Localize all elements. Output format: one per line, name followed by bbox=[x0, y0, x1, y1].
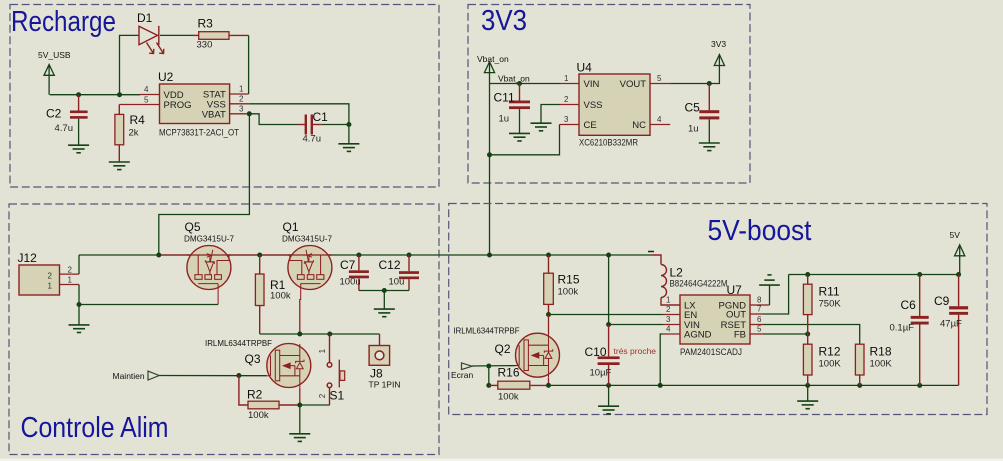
resistor R2 bbox=[239, 376, 300, 409]
svg-text:VSS: VSS bbox=[584, 100, 603, 111]
svg-text:Ecran: Ecran bbox=[451, 370, 473, 380]
svg-text:R2: R2 bbox=[247, 388, 263, 402]
wire OUT to 5V rail bbox=[763, 275, 789, 315]
node CE junction bbox=[487, 152, 492, 157]
svg-text:PROG: PROG bbox=[164, 100, 192, 111]
ground right of C1 bbox=[338, 144, 359, 152]
wire 5V rail bbox=[789, 274, 959, 276]
svg-text:R3: R3 bbox=[198, 17, 214, 31]
ground below J12 bbox=[69, 325, 90, 333]
node 5V C6 bbox=[917, 272, 922, 277]
svg-text:3: 3 bbox=[239, 104, 244, 113]
svg-text:1: 1 bbox=[48, 282, 53, 291]
node C6 bottom bbox=[917, 383, 922, 388]
capacitor C11 bbox=[509, 81, 530, 133]
svg-text:10µF: 10µF bbox=[590, 368, 612, 379]
ic U7 bbox=[663, 295, 763, 344]
svg-text:J8: J8 bbox=[370, 367, 383, 381]
svg-text:C5: C5 bbox=[685, 101, 701, 115]
port Maintien bbox=[148, 371, 159, 380]
wire C1 to VSS-ground bbox=[322, 124, 349, 126]
ground below C11 bbox=[509, 133, 530, 141]
node J12 pin1 bbox=[77, 302, 82, 307]
wire rail end tick bbox=[648, 251, 654, 253]
power 3V3 arrow bbox=[714, 55, 724, 84]
svg-text:XC6210B332MR: XC6210B332MR bbox=[579, 138, 638, 148]
wire Q1gate/Q3drain node bbox=[260, 333, 380, 335]
svg-text:6: 6 bbox=[757, 315, 762, 324]
node Q3 drain bbox=[297, 332, 302, 337]
svg-text:4: 4 bbox=[657, 115, 662, 124]
ic U4 bbox=[560, 74, 671, 135]
svg-text:C12: C12 bbox=[379, 258, 401, 272]
wire ground stem C7/C12 bbox=[383, 291, 385, 309]
svg-text:NC: NC bbox=[632, 120, 646, 131]
svg-text:Controle Alim: Controle Alim bbox=[21, 412, 169, 444]
svg-text:R18: R18 bbox=[870, 345, 892, 359]
svg-text:C7: C7 bbox=[340, 258, 356, 272]
node rail C12 bbox=[407, 253, 412, 258]
node S1 pin1 bbox=[327, 332, 332, 337]
node 5V R11 bbox=[805, 272, 810, 277]
ground below C10 bbox=[598, 406, 619, 414]
svg-text:47µF: 47µF bbox=[940, 319, 962, 330]
svg-text:5V: 5V bbox=[950, 230, 961, 240]
sheet border Controle Alim bbox=[9, 204, 439, 455]
svg-text:1: 1 bbox=[564, 74, 569, 83]
wire RSET to R18 bbox=[763, 325, 860, 345]
svg-text:3V3: 3V3 bbox=[711, 39, 726, 49]
wire main Vbat rail bbox=[79, 254, 652, 256]
svg-text:J12: J12 bbox=[18, 251, 38, 265]
wire Maintien to Q3 gate bbox=[159, 375, 267, 377]
svg-text:TP 1PIN: TP 1PIN bbox=[369, 380, 401, 390]
port Ecran bbox=[462, 363, 473, 370]
svg-text:D1: D1 bbox=[137, 11, 153, 25]
node 5V C9 bbox=[956, 272, 961, 277]
resistor R4 bbox=[115, 105, 124, 163]
svg-text:1: 1 bbox=[68, 276, 73, 285]
node R12 bottom bbox=[805, 383, 810, 388]
resistor R1 bbox=[255, 255, 264, 334]
wire boost ground rail bbox=[549, 384, 959, 386]
node C1/VSS junction bbox=[346, 122, 351, 127]
svg-text:IRLML6344TRPBF: IRLML6344TRPBF bbox=[205, 338, 272, 348]
node C5 junction bbox=[707, 81, 712, 86]
svg-text:4: 4 bbox=[144, 85, 149, 94]
wire C7/C12 bottoms bbox=[359, 290, 409, 292]
svg-text:DMG3415U-7: DMG3415U-7 bbox=[184, 234, 234, 244]
svg-text:DMG3415U-7: DMG3415U-7 bbox=[282, 234, 332, 244]
node rail R15 bbox=[546, 253, 551, 258]
capacitor C12 bbox=[399, 255, 419, 291]
svg-text:1u: 1u bbox=[688, 124, 699, 135]
wire CE to Vbat_on bbox=[490, 125, 560, 155]
ic U2 bbox=[119, 84, 249, 124]
wire Q2 source bbox=[548, 377, 550, 385]
svg-text:1u: 1u bbox=[499, 114, 510, 125]
inductor L2 bbox=[652, 255, 680, 305]
svg-text:C6: C6 bbox=[901, 298, 917, 312]
node R16 branch bbox=[486, 364, 491, 369]
wire R16 branch down bbox=[488, 366, 490, 385]
svg-text:Recharge: Recharge bbox=[11, 6, 116, 38]
resistor R12 bbox=[803, 334, 812, 385]
svg-text:3: 3 bbox=[564, 115, 569, 124]
svg-text:Q2: Q2 bbox=[495, 342, 511, 356]
svg-text:100k: 100k bbox=[498, 392, 519, 403]
svg-text:U2: U2 bbox=[158, 70, 174, 84]
ground below VSS bbox=[531, 123, 552, 131]
wire VOUT to 3V3 bbox=[670, 83, 720, 85]
svg-text:0.1µF: 0.1µF bbox=[890, 323, 915, 334]
svg-text:Vbat_on: Vbat_on bbox=[498, 74, 530, 84]
switch S1 bbox=[327, 334, 344, 405]
wire EN net bbox=[549, 314, 664, 316]
svg-text:5V-boost: 5V-boost bbox=[708, 215, 812, 247]
svg-text:Q1: Q1 bbox=[283, 220, 299, 234]
svg-text:C10: C10 bbox=[585, 345, 607, 359]
node VBAT bbox=[247, 111, 252, 116]
sheet border 5V-boost bbox=[449, 204, 987, 415]
svg-text:100K: 100K bbox=[870, 359, 893, 370]
resistor R3 bbox=[193, 32, 249, 40]
wire Q3 source bbox=[299, 388, 301, 406]
svg-text:VIN: VIN bbox=[584, 79, 600, 90]
svg-text:R15: R15 bbox=[558, 273, 580, 287]
wire D1 anode bbox=[120, 35, 140, 94]
svg-text:100K: 100K bbox=[819, 359, 842, 370]
svg-text:MCP73831T-2ACI_OT: MCP73831T-2ACI_OT bbox=[159, 128, 239, 138]
svg-text:AGND: AGND bbox=[684, 330, 712, 341]
wire AGND elbow bbox=[660, 334, 663, 385]
svg-text:4.7u: 4.7u bbox=[303, 134, 322, 145]
svg-text:5: 5 bbox=[657, 74, 662, 83]
svg-text:S1: S1 bbox=[330, 389, 345, 403]
capacitor C2 bbox=[70, 95, 88, 146]
wire VSS to ground bbox=[541, 105, 560, 124]
svg-text:1: 1 bbox=[239, 85, 244, 94]
svg-text:10u: 10u bbox=[389, 277, 405, 288]
svg-text:R11: R11 bbox=[819, 285, 840, 299]
capacitor C5 bbox=[699, 84, 719, 144]
ground below C2 bbox=[68, 145, 89, 153]
wire R3 to STAT bbox=[248, 35, 250, 94]
wire J12 pin1 to gate/ground bbox=[78, 285, 80, 325]
node Q3 source bbox=[297, 403, 302, 408]
svg-text:C1: C1 bbox=[313, 110, 329, 124]
svg-text:2: 2 bbox=[48, 271, 53, 280]
transistor Q1 bbox=[288, 246, 332, 301]
capacitor C10 bbox=[598, 255, 620, 406]
diode D1 bbox=[139, 26, 164, 54]
wire Q2 drain bbox=[548, 315, 550, 335]
transistor Q5 bbox=[187, 246, 231, 305]
sheet border Recharge bbox=[10, 5, 439, 188]
svg-text:100k: 100k bbox=[248, 410, 269, 421]
wire VSS to ground bbox=[249, 104, 349, 144]
testpoint J8 bbox=[369, 334, 390, 365]
node R2 branch bbox=[236, 373, 241, 378]
node C2-top junction bbox=[76, 92, 81, 97]
svg-text:5: 5 bbox=[757, 325, 762, 334]
svg-text:2: 2 bbox=[318, 393, 327, 398]
svg-text:2: 2 bbox=[68, 265, 73, 274]
connector J12 bbox=[19, 265, 79, 295]
resistor R11 bbox=[803, 275, 812, 335]
power 5V_USB bbox=[44, 65, 54, 95]
svg-text:C11: C11 bbox=[494, 91, 515, 105]
svg-text:trés proche: trés proche bbox=[614, 346, 657, 356]
resistor R18 bbox=[855, 344, 864, 385]
wire VIN net bbox=[609, 324, 663, 326]
svg-text:R4: R4 bbox=[130, 113, 146, 127]
svg-text:5: 5 bbox=[144, 96, 149, 105]
ground above PGND inverted bbox=[759, 275, 780, 285]
transistor Q3 bbox=[267, 344, 311, 388]
svg-text:C9: C9 bbox=[934, 294, 950, 308]
node rail Vbat_on bbox=[487, 253, 492, 258]
svg-text:4.7u: 4.7u bbox=[55, 123, 74, 134]
node D1 junction bbox=[117, 92, 122, 97]
svg-text:2: 2 bbox=[239, 94, 244, 103]
wire Ecran to Q2 gate bbox=[472, 365, 516, 367]
svg-text:U7: U7 bbox=[727, 283, 743, 297]
svg-text:U4: U4 bbox=[577, 61, 593, 75]
wire PGND to ground bbox=[763, 304, 770, 306]
node rail descend bbox=[156, 253, 161, 258]
power Vbat_on bbox=[484, 62, 494, 84]
ground below C5 bbox=[699, 143, 720, 151]
wire VDD rail bbox=[50, 94, 140, 96]
svg-text:7: 7 bbox=[757, 305, 762, 314]
node rail C7 bbox=[356, 253, 361, 258]
node Q2 source bbox=[546, 383, 551, 388]
wire D1 cathode to R3 bbox=[160, 34, 193, 36]
capacitor C1 bbox=[298, 115, 322, 135]
svg-text:750K: 750K bbox=[819, 299, 842, 310]
transistor Q2 bbox=[516, 333, 560, 377]
wire VBAT down to Controle Alim bbox=[159, 114, 250, 255]
ground below C7/C12 bbox=[374, 309, 395, 317]
svg-text:CE: CE bbox=[584, 120, 597, 131]
ground below R12 bbox=[797, 401, 818, 409]
svg-text:100u: 100u bbox=[340, 277, 361, 288]
svg-text:Q3: Q3 bbox=[245, 352, 261, 366]
node rail R1 bbox=[257, 253, 262, 258]
svg-text:R12: R12 bbox=[819, 345, 841, 359]
node C10 bottom bbox=[606, 383, 611, 388]
ground below Q3 bbox=[289, 434, 310, 442]
wire ground stem R12 bbox=[807, 385, 809, 400]
wire VBAT to C1 bbox=[249, 114, 298, 125]
wire ground stem Q3 bbox=[299, 405, 301, 434]
resistor R16 bbox=[489, 381, 549, 389]
wire Q5 gate bbox=[79, 304, 218, 306]
node rail C10 bbox=[606, 253, 611, 258]
svg-text:IRLML6344TRPBF: IRLML6344TRPBF bbox=[454, 326, 520, 336]
node EN/R15/Q2 bbox=[546, 312, 551, 317]
capacitor C6 bbox=[911, 275, 929, 386]
svg-text:VBAT: VBAT bbox=[202, 109, 226, 120]
wire Q3 source node bbox=[300, 404, 330, 406]
svg-text:2k: 2k bbox=[129, 128, 139, 139]
svg-text:3: 3 bbox=[666, 315, 671, 324]
capacitor C7 bbox=[349, 255, 369, 291]
svg-text:B82464G4222M: B82464G4222M bbox=[670, 279, 728, 289]
wire Vbat_on to VIN bbox=[490, 83, 560, 85]
svg-text:PAM2401SCADJ: PAM2401SCADJ bbox=[680, 347, 742, 357]
wire rail red lead segment Q5-Q1 bbox=[159, 254, 332, 256]
capacitor C9 bbox=[949, 275, 968, 386]
wire FB to R11/R12 bbox=[763, 333, 808, 335]
svg-text:L2: L2 bbox=[670, 266, 684, 280]
node C7/C12 ground bbox=[382, 288, 387, 293]
power 5V arrow bbox=[955, 245, 965, 275]
svg-text:FB: FB bbox=[734, 330, 746, 341]
sheet border 3V3 bbox=[468, 5, 750, 184]
node R16 left bbox=[486, 383, 491, 388]
svg-text:2: 2 bbox=[564, 95, 569, 104]
svg-text:4: 4 bbox=[666, 325, 671, 334]
svg-text:3V3: 3V3 bbox=[481, 5, 527, 37]
svg-text:1: 1 bbox=[318, 348, 327, 353]
svg-text:8: 8 bbox=[757, 296, 762, 305]
svg-text:330: 330 bbox=[197, 40, 213, 51]
wire Q1 gate down bbox=[299, 299, 301, 334]
svg-text:Q5: Q5 bbox=[185, 220, 201, 234]
svg-text:Maintien: Maintien bbox=[113, 371, 145, 381]
svg-text:100k: 100k bbox=[270, 291, 291, 302]
wire J12 pin2 to rail bbox=[78, 255, 80, 274]
node AGND bbox=[658, 383, 663, 388]
svg-text:C2: C2 bbox=[46, 107, 62, 121]
wire Vbat_on down to rail bbox=[489, 84, 491, 256]
svg-text:Vbat_on: Vbat_on bbox=[477, 54, 509, 64]
svg-text:VOUT: VOUT bbox=[620, 79, 647, 90]
node R18 bottom bbox=[857, 383, 862, 388]
svg-text:1: 1 bbox=[666, 296, 671, 305]
svg-text:100k: 100k bbox=[558, 287, 579, 298]
ground below R4 bbox=[109, 162, 130, 170]
svg-text:2: 2 bbox=[666, 305, 671, 314]
node FB bbox=[805, 332, 810, 337]
svg-text:R16: R16 bbox=[498, 366, 520, 380]
svg-text:OUT: OUT bbox=[726, 310, 746, 321]
resistor R15 bbox=[544, 255, 554, 315]
svg-text:5V_USB: 5V_USB bbox=[38, 50, 71, 60]
